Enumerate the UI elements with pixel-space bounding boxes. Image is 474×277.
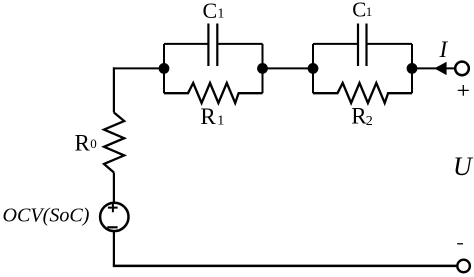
- box1 right edge wire at node B: [262, 44, 264, 93]
- wire: bottom rail to negative terminal: [113, 265, 457, 268]
- box1 left edge wire at node A: [163, 44, 165, 93]
- svg-text:C: C: [203, 0, 218, 23]
- node A junction dot: [159, 63, 170, 74]
- voltage source minus mark: [107, 226, 117, 228]
- positive terminal circle: [455, 62, 469, 76]
- svg-text:0: 0: [90, 136, 97, 151]
- voltage source plus mark: [108, 203, 118, 212]
- capacitor C1 plates: [208, 24, 217, 67]
- box1 top wire from capacitor C1 right plate: [218, 43, 262, 45]
- svg-text:1: 1: [366, 4, 373, 19]
- svg-text:1: 1: [217, 7, 224, 22]
- minus mark at negative terminal: [457, 243, 463, 245]
- current arrow I head: [434, 62, 446, 75]
- svg-text:C: C: [352, 0, 366, 22]
- negative terminal circle: [457, 260, 470, 273]
- plus mark at positive terminal: [458, 85, 469, 96]
- wire: main horizontal from left branch corner to node A: [114, 67, 165, 69]
- wire: between RC box1 and box2: [263, 67, 314, 69]
- wire: from R0 to voltage source top: [113, 173, 115, 203]
- voltage source U1 OCV(SoC): circle: [100, 203, 128, 231]
- box2 top wire to capacitor C1b left plate: [313, 43, 357, 45]
- wire: left vertical branch from corner down to R0: [113, 67, 115, 112]
- box1 top wire to capacitor C1 left plate: [164, 43, 208, 45]
- box2 right edge wire at node D: [411, 44, 413, 93]
- node D junction dot: [407, 63, 418, 74]
- svg-text:U: U: [453, 152, 474, 181]
- box2 top wire from capacitor C1b right plate: [367, 43, 412, 45]
- box2 left edge wire at node C: [312, 44, 314, 93]
- svg-text:OCV(SoC): OCV(SoC): [3, 205, 90, 227]
- node C junction dot: [308, 63, 319, 74]
- svg-text:1: 1: [217, 114, 224, 129]
- resistor R1 with bottom leads: [164, 83, 263, 103]
- svg-text:R: R: [200, 104, 216, 129]
- wire: from node D to positive terminal: [412, 67, 454, 69]
- node B junction dot: [257, 63, 268, 74]
- svg-text:R: R: [75, 131, 91, 156]
- svg-text:2: 2: [366, 114, 373, 129]
- resistor R0: [104, 113, 124, 173]
- capacitor C1b plates: [358, 24, 367, 67]
- svg-text:I: I: [439, 37, 449, 62]
- resistor R2 with bottom leads: [313, 83, 412, 103]
- wire: from voltage source bottom to bottom-left corner: [113, 231, 115, 266]
